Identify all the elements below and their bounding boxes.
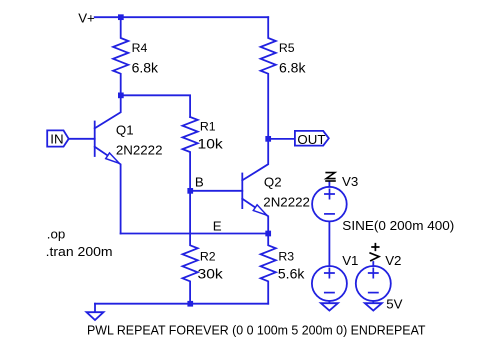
svg-text:.tran 200m: .tran 200m	[46, 244, 113, 259]
svg-text:R4: R4	[132, 41, 148, 55]
svg-text:2N2222: 2N2222	[263, 194, 310, 209]
ground V1	[321, 301, 338, 311]
svg-text:6.8k: 6.8k	[279, 60, 306, 76]
voltage source V2	[356, 262, 391, 301]
wire top V+ rail	[95, 16, 269, 18]
svg-text:R2: R2	[200, 249, 216, 263]
wire node to R1 top	[121, 95, 190, 117]
svg-text:R5: R5	[279, 41, 295, 55]
marker Z above V3	[326, 173, 335, 181]
svg-text:5.6k: 5.6k	[278, 266, 305, 282]
wire OUT stub	[268, 138, 295, 140]
svg-text:PWL REPEAT FOREVER (0 0 100m 5: PWL REPEAT FOREVER (0 0 100m 5 200m 0) E…	[87, 323, 426, 338]
svg-text:10k: 10k	[198, 136, 224, 152]
marker arrow above V2	[370, 244, 379, 261]
svg-text:B: B	[195, 175, 204, 190]
svg-text:R3: R3	[278, 249, 294, 263]
svg-text:2N2222: 2N2222	[116, 142, 163, 157]
transistor Q1	[95, 95, 121, 233]
wire E row from Q1 emitter	[121, 233, 269, 235]
node R2-bottom junction dot	[187, 301, 193, 307]
svg-text:Q1: Q1	[116, 123, 134, 138]
resistor R3	[261, 234, 276, 304]
node E junction dot	[265, 231, 271, 237]
ground main	[94, 304, 96, 313]
transistor Q2	[242, 139, 268, 234]
svg-text:Q2: Q2	[264, 175, 282, 190]
resistor R4	[113, 17, 128, 95]
resistor R5	[261, 17, 276, 139]
svg-text:SINE(0 200m 400): SINE(0 200m 400)	[342, 218, 454, 233]
wire bottom ground rail	[95, 303, 268, 305]
voltage source V3	[312, 182, 347, 266]
wire node B to Q2 base	[190, 190, 242, 192]
node R4-bottom junction dot	[118, 93, 124, 99]
svg-text:V+: V+	[78, 11, 95, 26]
svg-text:.op: .op	[47, 227, 66, 242]
flag IN	[47, 130, 68, 146]
svg-text:V1: V1	[342, 253, 358, 268]
svg-text:IN: IN	[50, 132, 63, 147]
wire IN to Q1 base	[69, 138, 95, 140]
svg-text:R1: R1	[200, 119, 216, 133]
svg-text:6.8k: 6.8k	[132, 60, 159, 76]
svg-text:V2: V2	[385, 253, 401, 268]
resistor R1	[183, 117, 198, 191]
node B junction dot	[187, 188, 193, 194]
resistor R2	[183, 191, 198, 304]
svg-text:E: E	[213, 218, 222, 233]
svg-text:V3: V3	[342, 174, 358, 189]
svg-text:30k: 30k	[198, 266, 224, 282]
ground V2	[365, 301, 382, 311]
node V+ junction dot	[118, 14, 124, 20]
flag OUT	[295, 131, 329, 146]
svg-text:5V: 5V	[386, 297, 402, 312]
node OUT junction dot	[265, 136, 271, 142]
voltage source V1	[312, 266, 347, 301]
svg-text:OUT: OUT	[297, 132, 325, 147]
